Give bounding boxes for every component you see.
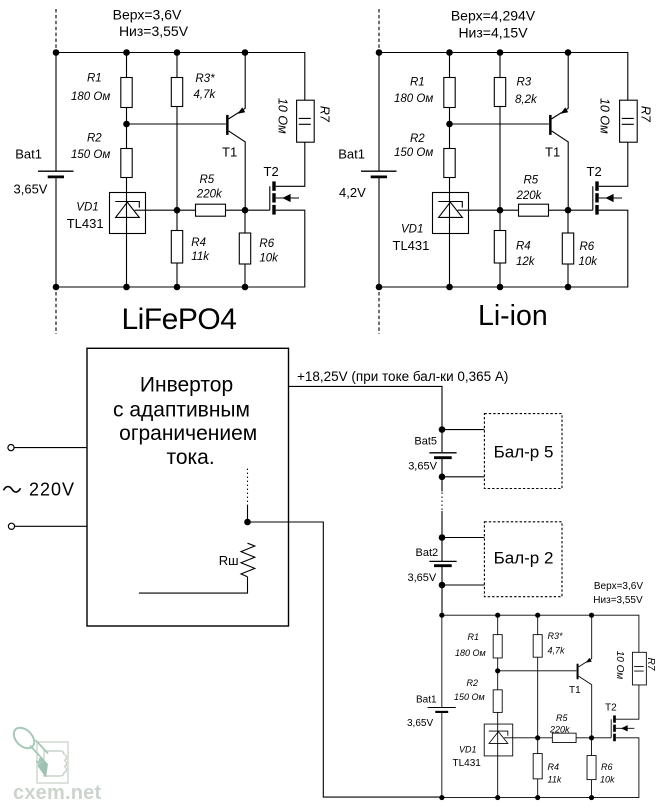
svg-text:T2: T2	[605, 703, 617, 714]
svg-text:Bat1: Bat1	[15, 147, 42, 162]
svg-text:12k: 12k	[516, 256, 536, 268]
dashed rail continuation above (right)	[378, 9, 380, 52]
wire: Rsh bottom L-return	[139, 577, 248, 593]
LiFePO4 balancer circuit (left)	[38, 49, 314, 290]
battery Bat2 long plate	[429, 560, 456, 562]
svg-text:R5: R5	[524, 175, 539, 187]
svg-text:Li-ion: Li-ion	[478, 300, 548, 332]
svg-text:Bat5: Bat5	[414, 436, 437, 448]
wire: Bat5 plus to balancer 5 box	[442, 429, 484, 431]
dashed rail continuation below (right)	[378, 292, 380, 334]
svg-text:Бал-р 2: Бал-р 2	[494, 549, 554, 568]
svg-text:4,7k: 4,7k	[548, 646, 566, 656]
svg-text:3,65V: 3,65V	[408, 460, 437, 472]
svg-text:Низ=4,15V: Низ=4,15V	[458, 25, 528, 41]
svg-text:10 Ом: 10 Ом	[614, 651, 625, 680]
svg-text:cxem.net: cxem.net	[13, 782, 101, 804]
svg-text:R4: R4	[548, 762, 560, 772]
wire: AC input top	[14, 447, 87, 449]
svg-text:+18,25V (при токе бал-ки 0,365: +18,25V (при токе бал-ки 0,365 A)	[297, 369, 508, 384]
svg-text:Bat2: Bat2	[416, 547, 439, 559]
svg-text:150 Ом: 150 Ом	[71, 149, 110, 161]
svg-text:3,65V: 3,65V	[407, 718, 433, 729]
svg-text:4,2V: 4,2V	[339, 185, 366, 200]
svg-text:R1: R1	[410, 77, 425, 89]
battery Bat5 short plate	[434, 456, 452, 459]
svg-text:10 Ом: 10 Ом	[598, 98, 612, 134]
balancer 5 dashed box	[484, 414, 562, 489]
svg-text:VD1: VD1	[459, 745, 477, 755]
dotted wire above Rsh	[247, 469, 249, 505]
svg-text:LiFePO4: LiFePO4	[122, 303, 237, 336]
svg-text:T1: T1	[569, 685, 581, 696]
watermark logo: inner document with scalloped edge	[44, 751, 67, 776]
watermark logo: cross mark	[36, 758, 44, 766]
svg-text:3,65V: 3,65V	[408, 572, 437, 584]
wire: Rsh top to tap node	[247, 505, 249, 522]
AC input terminal bottom	[8, 523, 14, 529]
svg-text:T1: T1	[222, 145, 237, 160]
node: Bat2 minus	[439, 582, 446, 589]
svg-text:10k: 10k	[579, 256, 599, 268]
svg-text:220k: 220k	[549, 725, 570, 735]
svg-text:Верх=3,6V: Верх=3,6V	[594, 581, 643, 592]
svg-text:ограничением: ограничением	[119, 422, 257, 445]
svg-text:Низ=3,55V: Низ=3,55V	[593, 595, 643, 606]
svg-text:3,65V: 3,65V	[14, 181, 48, 196]
wire: +18.25V output from inverter to chain top	[289, 386, 443, 452]
dashed rail continuation below (left)	[55, 292, 57, 334]
svg-text:Bat1: Bat1	[416, 695, 437, 706]
node: Rsh tap	[244, 519, 251, 526]
svg-text:TL431: TL431	[67, 216, 104, 231]
svg-text:R6: R6	[601, 762, 613, 772]
watermark logo: screwdriver handle	[10, 724, 38, 752]
wire: tap node out of box, down and along bottom to small circuit	[248, 522, 443, 797]
small balancer circuit (bottom right)	[428, 613, 647, 800]
svg-text:TL431: TL431	[393, 238, 430, 253]
svg-text:Верх=4,294V: Верх=4,294V	[451, 8, 536, 24]
svg-text:8,2k: 8,2k	[515, 94, 538, 106]
node: Bat5 plus	[439, 426, 446, 433]
svg-text:T2: T2	[264, 164, 279, 179]
svg-text:с адаптивным: с адаптивным	[113, 399, 250, 422]
svg-text:Инвертор: Инвертор	[140, 374, 233, 397]
shunt resistor Rsh zigzag	[241, 543, 255, 577]
inverter box	[87, 348, 289, 626]
svg-text:R6: R6	[580, 241, 595, 253]
svg-text:R2: R2	[467, 678, 479, 688]
watermark logo: envelope outline	[37, 742, 68, 783]
svg-text:10 Ом: 10 Ом	[276, 98, 290, 134]
AC tilde symbol	[4, 487, 21, 492]
svg-text:11k: 11k	[548, 775, 562, 785]
wire: chain segment Bat2	[441, 511, 443, 561]
battery Bat2 short plate	[434, 564, 452, 567]
svg-text:Низ=3,55V: Низ=3,55V	[119, 23, 189, 39]
wire: Bat5 minus to balancer 5 box	[442, 476, 484, 478]
svg-text:4,7k: 4,7k	[194, 89, 217, 101]
wire: Bat2 plus to balancer 2 box	[442, 537, 484, 539]
AC input terminal top	[8, 445, 14, 451]
svg-text:150 Ом: 150 Ом	[454, 692, 485, 702]
battery Bat5 long plate	[429, 452, 456, 454]
svg-text:150 Ом: 150 Ом	[394, 147, 433, 159]
svg-text:T1: T1	[545, 145, 560, 160]
node: Bat2 plus	[439, 534, 446, 541]
svg-text:R7: R7	[639, 106, 653, 123]
svg-text:T2: T2	[587, 164, 602, 179]
svg-text:R5: R5	[200, 174, 215, 186]
wire: chain into small circuit top	[441, 566, 443, 615]
svg-text:VD1: VD1	[401, 224, 423, 236]
svg-text:VD1: VD1	[76, 201, 98, 213]
svg-text:R1: R1	[87, 73, 102, 85]
svg-text:Bat1: Bat1	[338, 147, 365, 162]
Li-ion balancer circuit (right)	[361, 49, 637, 290]
svg-text:220V: 220V	[29, 479, 75, 499]
svg-text:180 Ом: 180 Ом	[455, 648, 486, 658]
svg-text:R3: R3	[517, 77, 532, 89]
svg-text:220k: 220k	[516, 190, 543, 202]
svg-text:R4: R4	[516, 241, 531, 253]
svg-text:10k: 10k	[259, 252, 279, 264]
svg-text:Верх=3,6V: Верх=3,6V	[113, 7, 182, 23]
svg-text:R2: R2	[87, 133, 102, 145]
svg-text:180 Ом: 180 Ом	[394, 93, 433, 105]
svg-text:R4: R4	[191, 237, 206, 249]
dashed rail continuation above (left)	[55, 9, 57, 52]
svg-text:тока.: тока.	[166, 446, 214, 469]
balancer 2 dashed box	[484, 522, 562, 597]
svg-text:R3*: R3*	[548, 631, 564, 641]
svg-text:R1: R1	[468, 632, 480, 642]
watermark logo: screwdriver tip	[38, 757, 49, 778]
svg-text:180 Ом: 180 Ом	[71, 91, 110, 103]
wire: AC input bottom	[15, 525, 87, 527]
wire: Bat2 minus to balancer 2 box	[442, 584, 484, 586]
svg-text:220k: 220k	[196, 189, 223, 201]
svg-text:11k: 11k	[191, 251, 210, 263]
svg-text:10k: 10k	[600, 775, 615, 785]
svg-text:R7: R7	[645, 658, 656, 671]
svg-text:R3*: R3*	[195, 73, 215, 85]
dotted chain continuation between Bat5 and Bat2	[441, 493, 443, 511]
svg-text:R2: R2	[410, 133, 425, 145]
svg-text:Rш: Rш	[219, 553, 239, 568]
svg-text:R7: R7	[318, 106, 332, 123]
wire: chain segment Bat5	[441, 458, 443, 491]
svg-text:R5: R5	[556, 713, 568, 723]
watermark logo: screwdriver shaft	[30, 740, 48, 759]
svg-text:TL431: TL431	[453, 758, 482, 769]
svg-text:R6: R6	[259, 238, 274, 250]
svg-text:Бал-р 5: Бал-р 5	[494, 443, 554, 462]
node: Bat5 minus	[439, 474, 446, 481]
